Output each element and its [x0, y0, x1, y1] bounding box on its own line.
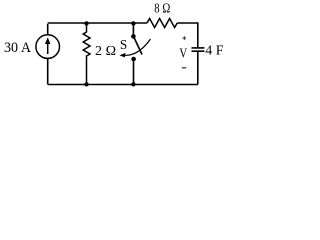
wire: left column below source	[47, 58, 49, 84]
current source 30 A (circle with up arrow)	[36, 35, 60, 59]
svg-text:V: V	[179, 47, 187, 62]
svg-text:30 A: 30 A	[4, 40, 32, 56]
wire: switch bottom stub	[133, 59, 135, 84]
resistor 2ohm (vertical zigzag with stubs)	[83, 24, 90, 85]
switch S upper contact dot	[131, 34, 136, 39]
junction dot: resistor bottom node	[84, 82, 88, 86]
svg-text:S: S	[120, 37, 127, 52]
junction dot: resistor top node	[84, 21, 88, 25]
resistor 8ohm zigzag (series in top rail)	[147, 19, 177, 28]
switch S blade	[134, 37, 142, 55]
junction dot: switch bottom node on rail	[131, 82, 135, 86]
wire: top rail left segment	[48, 22, 147, 24]
capacitor 4 F bottom plate	[192, 50, 205, 52]
wire: left column above source	[47, 24, 49, 35]
junction dot: switch top node on rail	[131, 21, 135, 25]
switch S motion arc with arrowhead	[122, 39, 151, 55]
wire: switch top stub	[132, 24, 134, 37]
switch S lower contact dot	[131, 57, 136, 62]
svg-text:4 F: 4 F	[205, 43, 224, 58]
svg-text:2 Ω: 2 Ω	[95, 44, 116, 59]
wire: top rail right segment + right column down to capacitor top plate	[177, 23, 198, 48]
wire: bottom rail	[48, 84, 198, 86]
polarity minus sign	[182, 67, 187, 69]
polarity plus sign	[183, 36, 187, 40]
svg-text:8 Ω: 8 Ω	[154, 2, 170, 17]
wire: right column below capacitor	[197, 51, 199, 84]
capacitor 4 F top plate	[192, 47, 205, 49]
